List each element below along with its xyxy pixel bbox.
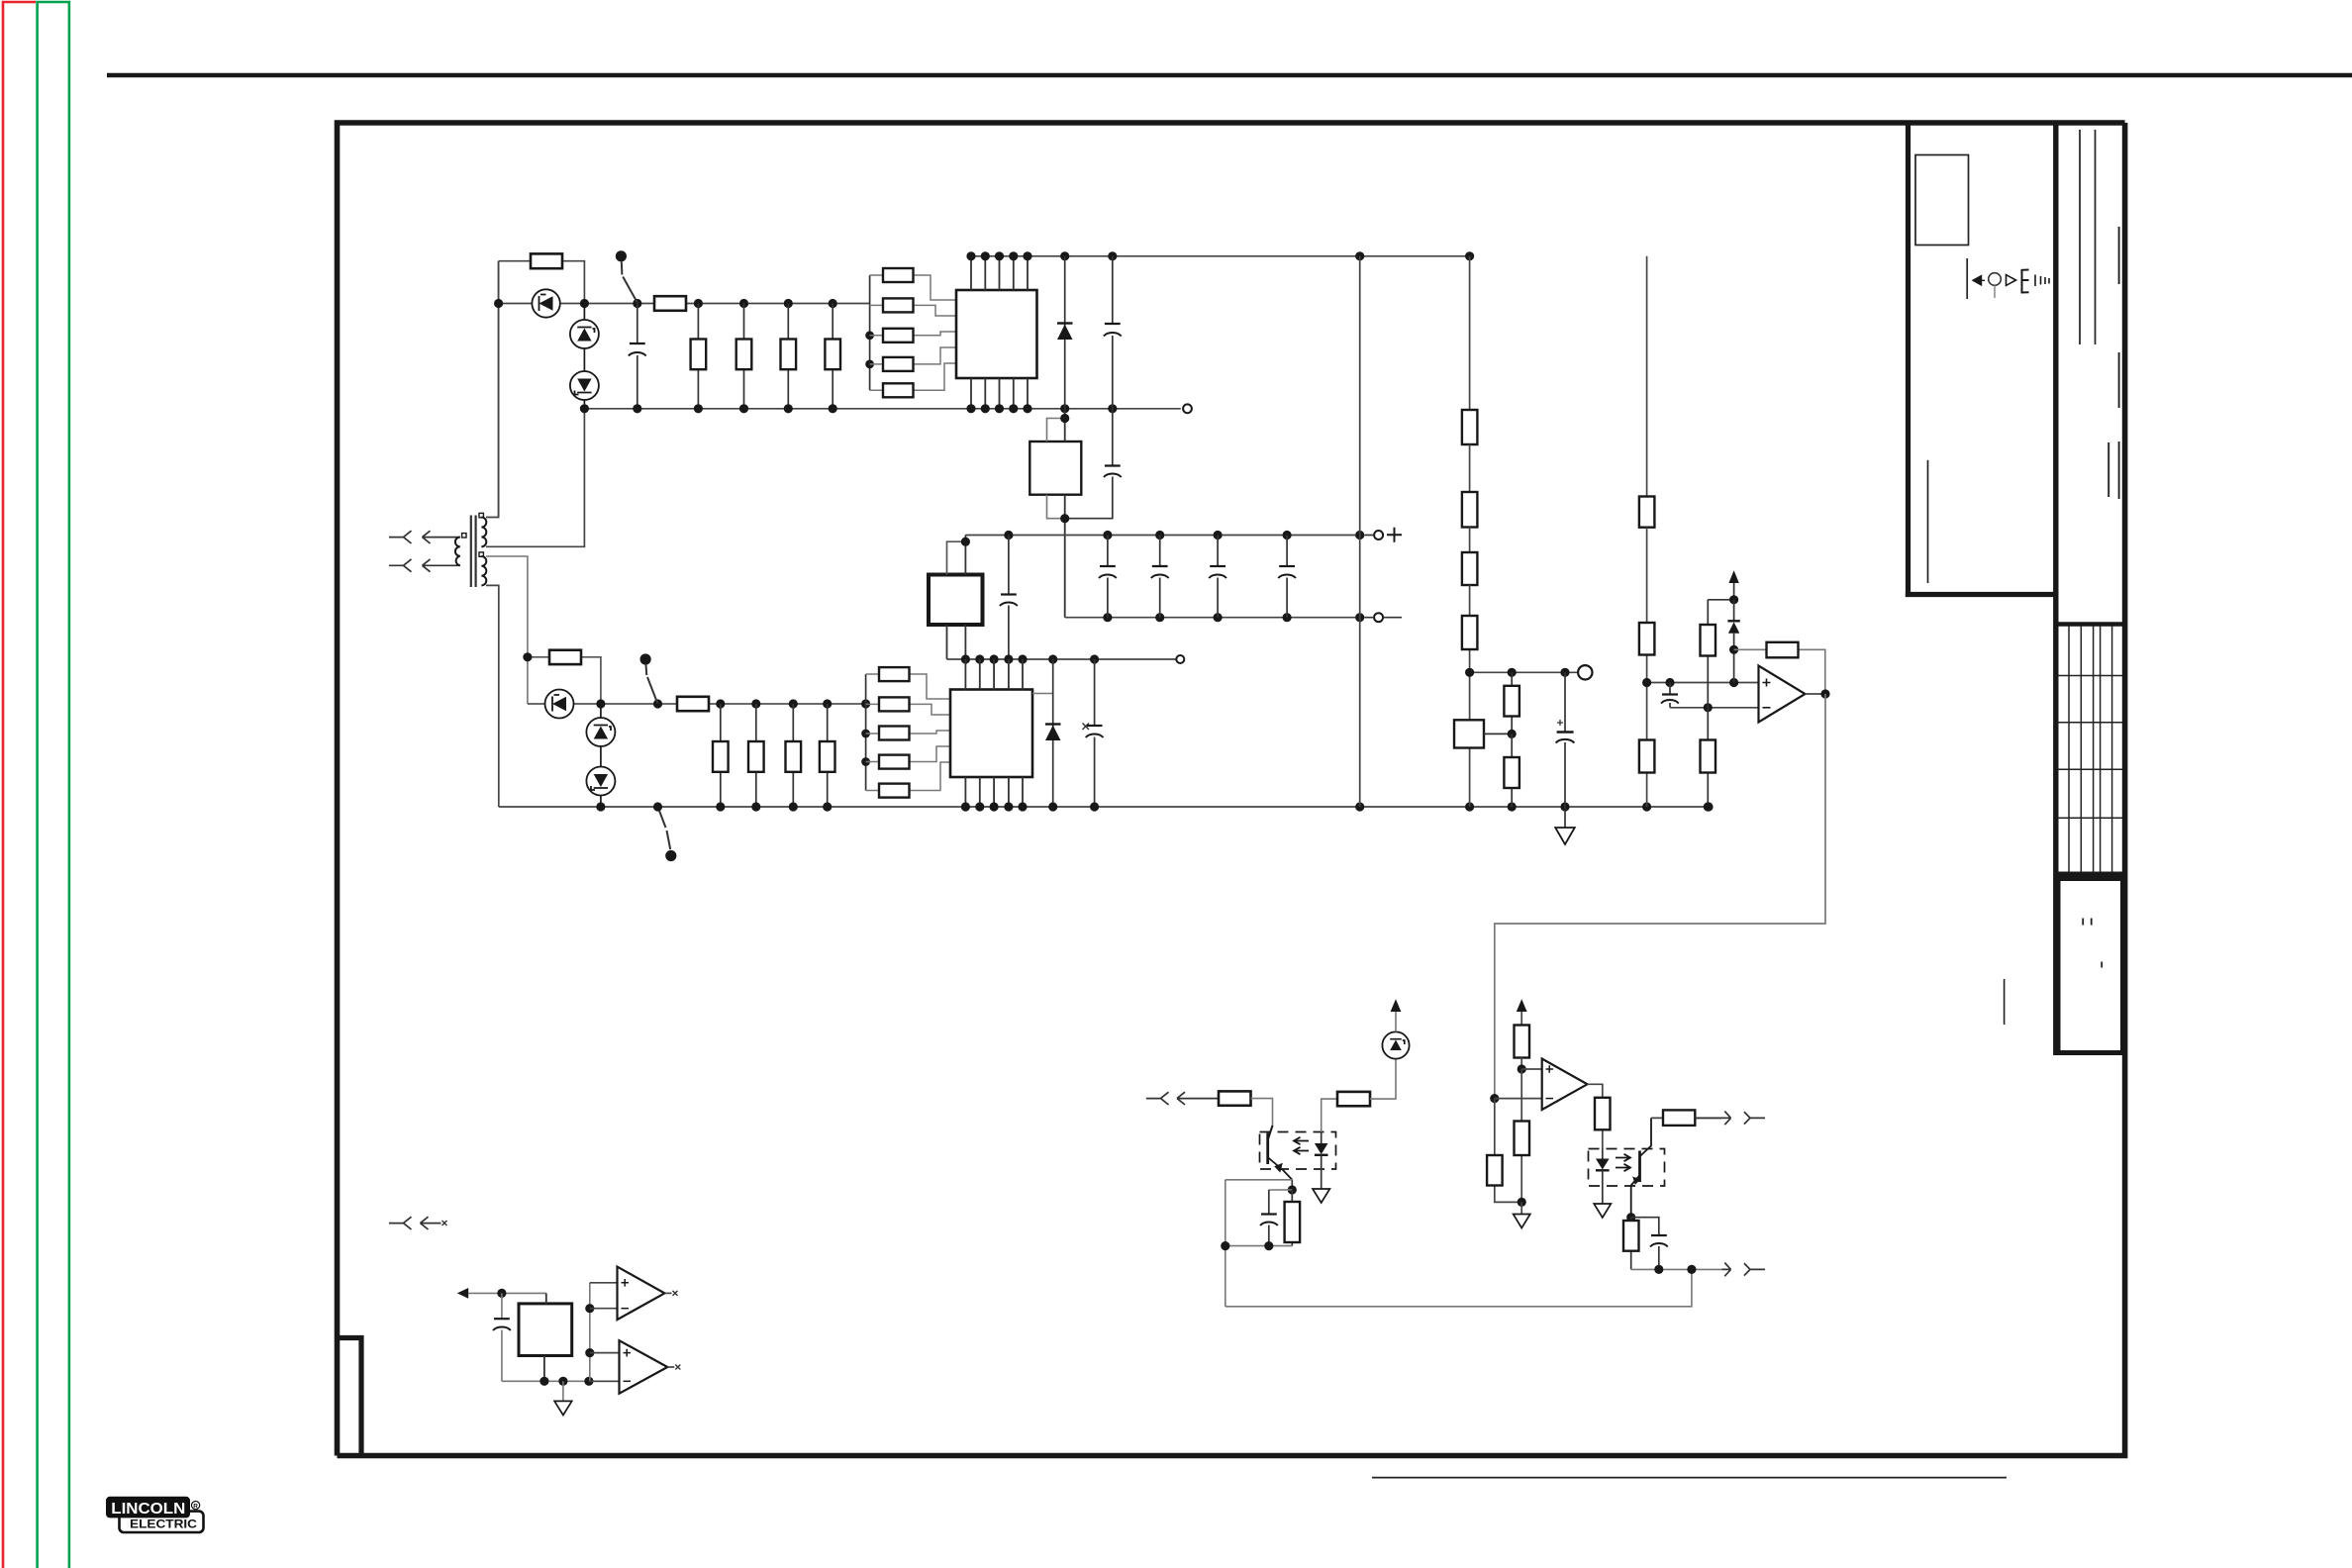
resistor R8: [677, 697, 709, 711]
revision column upper vlines: [2080, 130, 2096, 344]
right border tick marks: [2108, 227, 2118, 499]
SCR D10 (circled, pointing down): [586, 767, 615, 796]
resistor R21E ladder2 row5: [866, 762, 950, 798]
node dots ladder bus GD1: [865, 331, 874, 368]
title block: vertical divider: [2053, 123, 2058, 1055]
thin vline left of lower box: [2004, 979, 2006, 1025]
wire sec2 bottom lead: [486, 585, 499, 807]
wire base network bottom: [1225, 1245, 1293, 1247]
capacitor C2 (upper): [1104, 256, 1122, 409]
opto-coupler U9 (output side): [1589, 1118, 1665, 1217]
revision table top edge: [2056, 622, 2125, 626]
Lincoln Electric logo: LINCOLN box: [106, 1497, 190, 1519]
svg-text:R: R: [193, 1503, 198, 1510]
legend symbol: circle stem: [1994, 285, 1996, 298]
connector J6 pin (crow foot): [389, 1217, 412, 1229]
transformer T1 secondary lower terminal square: [479, 552, 483, 556]
ground symbol GND2: [1313, 1189, 1329, 1203]
resistor R21C ladder2 row3: [866, 727, 950, 740]
top rule: [107, 73, 2352, 78]
IC U5 reference: [1454, 720, 1512, 747]
wire ground rail: [499, 806, 1709, 808]
connector J3 pin (crow foot): [1146, 1092, 1169, 1105]
connector arrow out J4: [1695, 1112, 1765, 1126]
switch SW2: [640, 653, 658, 703]
SCR D5 (circled, pointing left): [532, 289, 559, 317]
IC U1 top pins: [971, 256, 1028, 290]
power arrow VCC3: [1517, 999, 1527, 1025]
IC U2 regulator: [1029, 441, 1081, 495]
node dots ground rail: [596, 802, 1713, 811]
capacitor C10: [1661, 683, 1679, 708]
IC U4 right pin: [1032, 693, 1053, 695]
wire bottom return run: [1225, 1269, 1692, 1306]
resistor R4: [736, 304, 752, 409]
wire sec2 top lead: [486, 556, 528, 704]
node dots upper bus GD2: [961, 654, 1099, 663]
node dots base network: [1221, 1241, 1273, 1250]
connector arrow J6 with x: [421, 1217, 441, 1229]
revision table row lines: [2058, 676, 2122, 819]
switch SW1: [616, 250, 637, 303]
IC U2 pin hooks: [1047, 409, 1070, 618]
resistor R21A ladder2 row1: [866, 667, 950, 699]
resistor R35: [1623, 1218, 1639, 1270]
wire left rail lower part to transformer: [498, 261, 500, 518]
wire top rail GD1: [499, 303, 870, 305]
resistor R2: [654, 296, 686, 311]
node dot U9 emitter: [1626, 1213, 1635, 1222]
resistor R15 chainA-3: [1462, 528, 1478, 586]
revision table bottom edge: [2056, 871, 2125, 876]
connector arrow to J1: [423, 531, 460, 543]
resistor R6: [825, 304, 840, 409]
crossing mark x GD2: [1083, 724, 1090, 731]
wire upper bus GD2: [947, 658, 1177, 660]
crossing mark x U11 out: [673, 1291, 678, 1296]
resistor R24: [1701, 600, 1734, 708]
wire opamp plus input row: [1647, 682, 1759, 684]
wire BL bottom row: [502, 1380, 624, 1382]
page margin green frame: [38, 2, 69, 1568]
node dot U7 emitter: [1288, 1185, 1297, 1194]
page margin red line: [3, 2, 36, 1568]
capacitor C7: [1000, 536, 1018, 660]
IC U3 supply block: [929, 536, 983, 660]
ground symbol GND3: [1514, 1202, 1530, 1227]
signal arrow left BL: [457, 1288, 546, 1299]
SCR D8 (circled, pointing left): [545, 690, 574, 719]
resistor R1: [499, 253, 585, 303]
node dots top bus GD1: [966, 251, 1474, 260]
resistor R14 chainA-2: [1462, 444, 1478, 528]
bottom thin rule: [1372, 1477, 2007, 1479]
resistor R20C ladder row3: [870, 329, 956, 343]
legend separator vline: [1966, 258, 1968, 299]
SCR D6 (circled, pointing up): [570, 304, 599, 409]
transformer T1 primary terminal square: [462, 534, 466, 538]
connector arrow to J3: [1177, 1092, 1219, 1105]
wire U8 minus input: [1495, 1098, 1542, 1100]
svg-text:LINCOLN: LINCOLN: [111, 1501, 185, 1518]
node dots plus bus: [1004, 531, 1364, 539]
SCR D9 (circled, pointing up): [586, 704, 615, 807]
wire plus bus: [965, 535, 1359, 537]
node dots gate rail GD2: [596, 699, 870, 708]
capacitor C3: [1099, 536, 1117, 618]
resistor R9: [713, 704, 729, 807]
capacitor C9 electrolytic: [1556, 672, 1575, 807]
crossing mark x U12 out: [675, 1365, 680, 1370]
transformer T1 secondary winding lower: [481, 556, 486, 585]
capacitor C11: [1260, 1190, 1292, 1246]
wire U7 emitter row: [1225, 1180, 1293, 1307]
node dot minus input row: [1704, 703, 1713, 712]
resistor R30: [1487, 1099, 1521, 1203]
wire feedback to lower section: [1495, 694, 1825, 1099]
capacitor C4: [1151, 536, 1169, 618]
legend thin vertical line lower: [1927, 460, 1929, 583]
resistor R20B ladder row2: [870, 298, 956, 316]
IC U4 bottom pins: [965, 777, 1023, 807]
terminal circle pot wiper: [1578, 665, 1592, 679]
node dots top rail GD1: [494, 299, 837, 308]
node dots ladder bus GD2: [861, 730, 870, 766]
node dots plus input row: [1642, 678, 1738, 687]
resistor R10: [748, 704, 764, 807]
switch SW3: [658, 807, 677, 861]
legend symbol: E glyph: [2022, 270, 2029, 293]
transformer T1 core: [471, 516, 476, 588]
resistor R28: [1337, 1059, 1396, 1107]
wire feed vertical x1374: [1359, 256, 1361, 807]
resistor R33: [1588, 1084, 1611, 1148]
ground symbol GND5: [554, 1381, 572, 1415]
resistor R32: [1515, 1069, 1530, 1207]
wire pot row: [1470, 671, 1578, 673]
lower box tick marks: [2083, 919, 2102, 968]
power arrow VCC1: [1728, 570, 1738, 604]
wire opto U7 anode riser: [1322, 1099, 1337, 1131]
capacitor C12: [1631, 1218, 1668, 1270]
resistor R22 chainB-2: [1639, 528, 1655, 683]
resistor R19 chainB-1: [1639, 256, 1655, 528]
wire sec1 top lead to left rail: [486, 261, 499, 518]
wire top bus GD1: [971, 255, 1470, 257]
opto-coupler U7 (input side): [1260, 1126, 1336, 1190]
resistor R12: [820, 704, 835, 807]
resistor R11: [786, 704, 802, 807]
resistor R34: [1651, 1110, 1721, 1126]
terminal negative output: [1364, 613, 1402, 622]
resistor R26 feedback: [1734, 642, 1825, 694]
capacitor C6: [1278, 536, 1296, 618]
diode D3: [1727, 600, 1739, 683]
wire U9 emitter bottom row: [1631, 1268, 1722, 1270]
op-amp U6: [1759, 666, 1806, 723]
ground symbol GND4: [1594, 1204, 1611, 1218]
capacitor C2B (lower section): [1065, 409, 1122, 519]
resistor R13 chainA-1: [1462, 256, 1478, 444]
node dots pot row: [1465, 668, 1570, 677]
Lincoln logo registered mark: [192, 1502, 200, 1511]
legend symbol: circle with stem: [1989, 273, 2002, 286]
op-amp U11: [590, 1267, 672, 1321]
op-amp U12: [589, 1340, 674, 1394]
connector J2 pin (crow foot): [389, 559, 412, 572]
svg-text:ELECTRIC: ELECTRIC: [130, 1518, 197, 1531]
wire bottom rail GD1: [584, 408, 1180, 410]
crossing mark x J6: [442, 1221, 447, 1225]
node dots minus bus: [1103, 613, 1364, 622]
wire sec1 bottom lead: [486, 409, 584, 547]
diode D2: [1045, 659, 1061, 807]
wire U8 plus input: [1521, 1068, 1542, 1070]
IC U4 top pins: [965, 659, 1023, 690]
resistor R3: [691, 304, 707, 409]
IC U10 block: [519, 1293, 572, 1381]
terminal circle upper bus GD2: [1176, 655, 1184, 663]
terminal positive output: [1364, 528, 1402, 542]
wire ladder bus GD2: [865, 674, 867, 791]
border notch bottom-left: [340, 1338, 361, 1454]
node dots BL bottom row: [539, 1377, 593, 1386]
connector J1 pin (crow foot): [389, 531, 412, 543]
legend small rectangle: [1915, 155, 1969, 245]
resistor R17: [1504, 672, 1519, 738]
title block: legend box left/bottom border: [1906, 125, 2056, 595]
IC U4 gate driver: [950, 690, 1032, 778]
node dots emitter bottom row: [1654, 1265, 1696, 1274]
wire ladder bus GD1: [869, 275, 871, 390]
diode D1: [1057, 256, 1073, 409]
power arrow VCC2: [1391, 999, 1402, 1031]
capacitor C13: [493, 1293, 511, 1381]
wire gate rail GD2: [528, 703, 866, 705]
resistor R20A ladder row1: [870, 268, 956, 300]
node dots bottom rail GD1: [580, 404, 1118, 413]
resistor R7: [523, 650, 601, 704]
ground symbol GND1: [1555, 807, 1575, 844]
wire minus bus: [1065, 617, 1360, 619]
resistor R21D ladder2 row4: [866, 746, 950, 769]
resistor R31: [1515, 1026, 1530, 1074]
node dot feedback tap: [1490, 1094, 1499, 1103]
node dot U6 output: [1820, 689, 1829, 698]
schematic border frame: [338, 123, 2125, 1456]
IC U1 gate driver: [956, 290, 1037, 378]
resistor R25: [1701, 708, 1716, 812]
connector arrow out J5: [1721, 1263, 1765, 1277]
resistor R23 chainB-3: [1639, 683, 1655, 808]
wire opamp U6 output: [1806, 693, 1826, 695]
node dots BL right bus: [585, 1304, 594, 1357]
revision table column lines: [2069, 626, 2112, 872]
resistor R5: [781, 304, 797, 409]
resistor R18: [1504, 734, 1519, 807]
capacitor C8: [1086, 659, 1104, 807]
resistor R21B ladder2 row2: [866, 697, 950, 715]
resistor R20D ladder row4: [870, 347, 956, 371]
resistor R20E ladder row5: [870, 363, 956, 397]
legend symbol: left arrow: [1973, 276, 1985, 285]
IC U1 bottom pins: [971, 378, 1028, 409]
capacitor C5: [1209, 536, 1226, 618]
op-amp U8: [1542, 1059, 1588, 1111]
SCR D7 (circled, pointing down): [570, 371, 599, 400]
transformer T1 secondary upper terminal square: [479, 513, 483, 517]
connector arrow to J2: [423, 559, 460, 572]
capacitor C1: [629, 304, 646, 409]
transformer T1 primary winding: [455, 538, 460, 566]
LED DS1 (circled): [1382, 1031, 1409, 1058]
terminal circle bottom rail GD1: [1183, 404, 1192, 413]
wire BL right bus: [589, 1283, 591, 1382]
resistor R27: [1219, 1091, 1273, 1127]
legend symbol: triangle: [2007, 275, 2016, 286]
transformer T1 secondary winding upper: [481, 518, 486, 547]
title block lower box: [2058, 879, 2123, 1053]
Lincoln Electric logo: ELECTRIC box: [120, 1512, 204, 1532]
resistor R16 chainA-4: [1462, 585, 1478, 807]
resistor R29: [1285, 1190, 1301, 1246]
legend symbol: bar marks: [2035, 275, 2049, 287]
wire opamp minus input row: [1670, 707, 1759, 709]
